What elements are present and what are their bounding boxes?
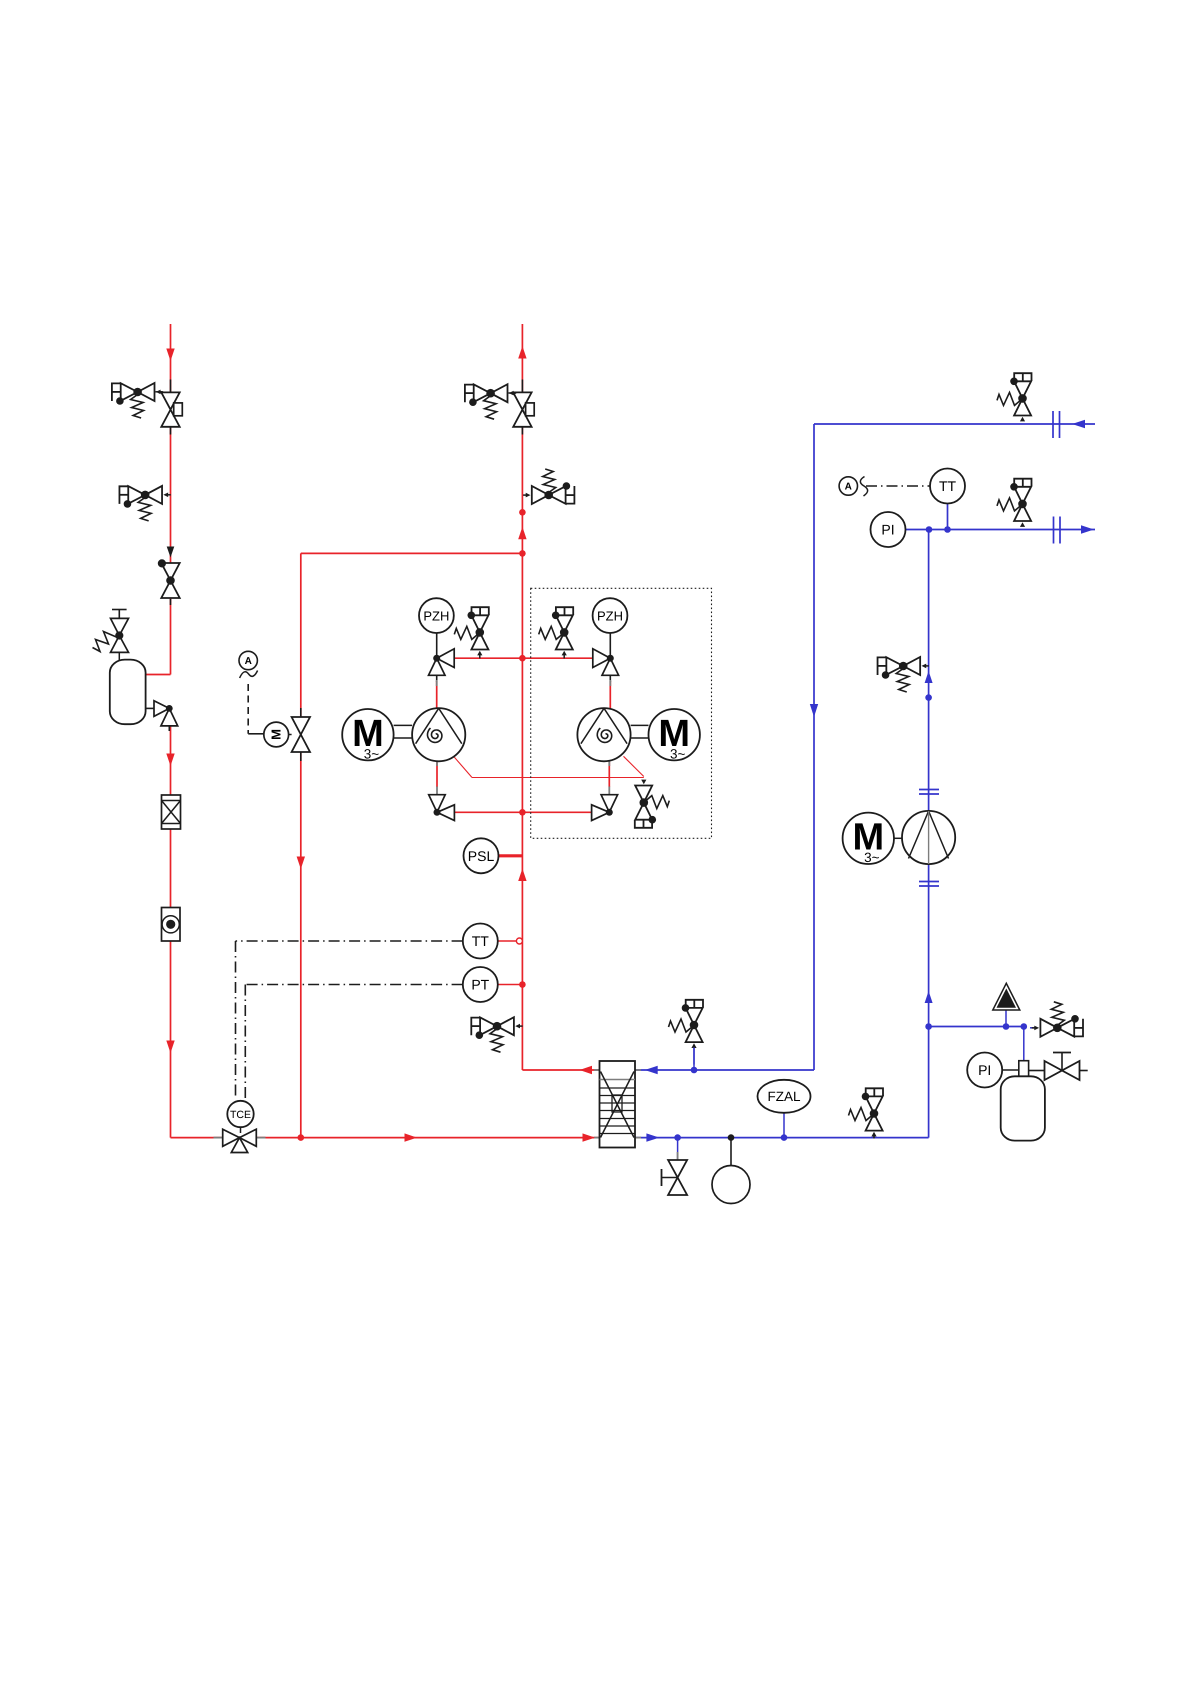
svg-text:3~: 3~ [670, 747, 686, 762]
svg-text:PZH: PZH [423, 608, 449, 623]
svg-text:PI: PI [881, 522, 894, 538]
svg-text:3~: 3~ [864, 850, 880, 865]
svg-text:PT: PT [471, 977, 489, 993]
svg-text:TCE: TCE [230, 1109, 251, 1121]
svg-text:PI: PI [978, 1062, 991, 1078]
svg-text:FZAL: FZAL [767, 1089, 800, 1104]
svg-text:TT: TT [472, 933, 490, 949]
svg-text:TT: TT [939, 478, 957, 494]
svg-text:3~: 3~ [364, 747, 380, 762]
svg-text:PSL: PSL [468, 848, 495, 864]
svg-text:PZH: PZH [597, 608, 623, 623]
svg-text:M: M [269, 729, 284, 740]
svg-text:A: A [845, 482, 852, 493]
svg-text:A: A [245, 656, 252, 667]
